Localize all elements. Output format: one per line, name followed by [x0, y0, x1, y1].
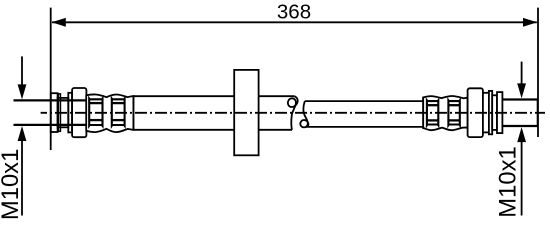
svg-text:M10x1: M10x1: [495, 146, 522, 217]
node: left crimp sleeve outline: [86, 94, 133, 132]
node: left crimp band 2: [112, 99, 125, 126]
wire: right M10x1 upper arrow line: [521, 62, 523, 86]
node: left collar tab: [58, 94, 60, 131]
node: left flange C: [68, 93, 72, 133]
node: left M10x1 lower arrowhead (up): [18, 126, 27, 141]
wire: right extension line of 368 dimension: [537, 8, 539, 137]
svg-text:368: 368: [277, 1, 311, 24]
wire: right stub end face: [537, 100, 539, 127]
wire: right threaded stub outer lines: [502, 98, 537, 100]
node: left flange washer A: [51, 93, 58, 132]
wire: left M10x1 lower arrow line: [21, 140, 23, 216]
node: hose mounting bracket: [234, 70, 258, 155]
wire: left brake pipe outer lines (thread OD): [14, 99, 87, 101]
node: left crimp band 1: [89, 99, 102, 126]
node: left hex nut: [72, 88, 86, 137]
node: right thin washer: [489, 91, 492, 134]
svg-text:M10x1: M10x1: [0, 149, 24, 220]
node: right M10x1 lower arrowhead (up): [517, 127, 526, 142]
wire: 368 dimension line: [52, 21, 537, 23]
node: left arrowhead of 368 dimension: [52, 18, 66, 27]
node: right collar 1: [483, 93, 489, 133]
node: left M10x1 upper arrowhead (down): [18, 84, 27, 99]
wire: left sleeve end cap: [132, 95, 134, 130]
wire: right hose segment outer lines: [305, 100, 423, 102]
node: right crimp sleeve outline: [423, 96, 467, 130]
wire: left extension line of 368 dimension: [50, 8, 52, 150]
node: hose break squiggle left: [288, 96, 298, 130]
node: right washer: [497, 92, 502, 133]
node: right crimp band 1: [427, 100, 438, 125]
wire: right M10x1 lower arrow line: [521, 141, 523, 216]
wire: right sleeve end cap: [422, 97, 424, 129]
node: right M10x1 upper arrowhead (down): [517, 83, 526, 98]
wire: left hose segment outer lines: [133, 95, 294, 97]
node: right crimp band 2: [448, 100, 459, 125]
node: right hex nut: [468, 88, 483, 137]
node: hose break squiggle right: [300, 101, 308, 127]
wire: left M10x1 upper arrow line: [21, 56, 23, 88]
node: left shelf collar: [58, 98, 69, 127]
node: right arrowhead of 368 dimension: [523, 18, 537, 27]
wire: centre line (dash-dot): [41, 112, 545, 114]
node: right collar 2: [492, 95, 497, 130]
